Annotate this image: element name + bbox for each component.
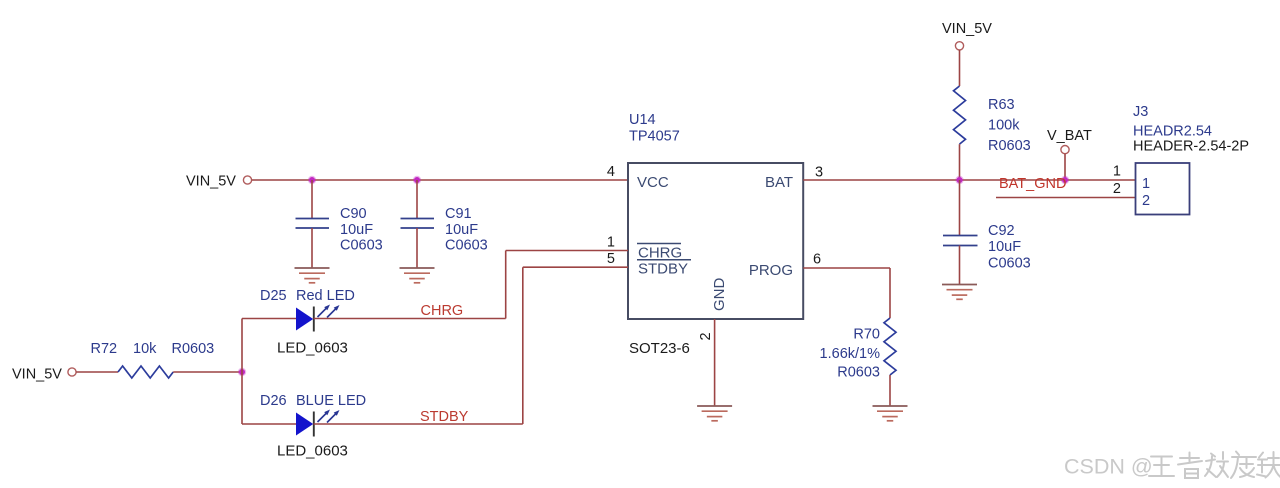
- svg-text:VCC: VCC: [637, 174, 669, 191]
- label D25: [260, 288, 355, 304]
- svg-text:1: 1: [1113, 164, 1121, 180]
- wire D25 anode: [242, 318, 296, 320]
- svg-text:STDBY: STDBY: [420, 409, 469, 425]
- svg-text:LED_0603: LED_0603: [277, 443, 348, 460]
- capacitor C92: [943, 236, 978, 246]
- wire C91 top stub: [416, 180, 418, 219]
- watermark CSDN: [1064, 455, 1153, 479]
- svg-text:10uF: 10uF: [445, 222, 478, 238]
- svg-text:2: 2: [1113, 181, 1121, 197]
- svg-text:100k: 100k: [988, 118, 1020, 134]
- wire J3 pin 2: [996, 197, 1136, 199]
- ground C91: [400, 268, 435, 283]
- node junction C91: [413, 176, 421, 184]
- svg-text:2: 2: [1142, 193, 1150, 209]
- svg-text:LED_0603: LED_0603: [277, 340, 348, 357]
- svg-text:V_BAT: V_BAT: [1047, 128, 1092, 144]
- terminal V_BAT: [1061, 146, 1069, 154]
- wire U14 pin 3 to J3: [803, 179, 1135, 181]
- wire CHRG vertical: [505, 251, 507, 319]
- node junction C90: [308, 176, 316, 184]
- svg-text:R0603: R0603: [837, 365, 880, 381]
- terminal VIN_5V top-right: [955, 42, 963, 50]
- svg-text:TP4057: TP4057: [629, 129, 680, 145]
- wire U14 pin 6: [803, 267, 890, 269]
- label C92: [988, 223, 1031, 272]
- svg-text:C0603: C0603: [988, 256, 1031, 272]
- svg-text:2: 2: [698, 332, 714, 340]
- wire U14 pin 1: [506, 250, 628, 252]
- svg-text:VIN_5V: VIN_5V: [942, 21, 992, 37]
- watermark chinese glyphs: [1149, 452, 1280, 479]
- wire LED split vertical: [241, 319, 243, 425]
- pin name STDBY (active low): [637, 260, 691, 278]
- svg-text:U14: U14: [629, 112, 656, 128]
- svg-text:CHRG: CHRG: [421, 303, 464, 319]
- svg-text:R72: R72: [91, 341, 118, 357]
- pin name CHRG (active low): [637, 244, 682, 262]
- svg-text:CHRG: CHRG: [638, 245, 682, 262]
- ground C92: [942, 285, 977, 300]
- connector J3 labels: [1133, 104, 1249, 155]
- capacitor C91: [401, 219, 435, 229]
- resistor R70: [884, 318, 896, 375]
- svg-text:STDBY: STDBY: [638, 261, 688, 278]
- node junction V_BAT: [1061, 176, 1069, 184]
- svg-text:6: 6: [813, 252, 821, 268]
- svg-text:VIN_5V: VIN_5V: [12, 367, 62, 383]
- wire U14 pin 5: [523, 266, 628, 268]
- label R63: [988, 97, 1031, 154]
- ground C90: [295, 268, 330, 283]
- svg-text:C0603: C0603: [340, 238, 383, 254]
- wire terminal to R63: [959, 50, 961, 86]
- svg-text:BAT_GND: BAT_GND: [999, 176, 1066, 192]
- svg-text:D25: D25: [260, 288, 287, 304]
- svg-text:HEADR2.54: HEADR2.54: [1133, 124, 1212, 140]
- wire VIN_5V rail to U14 pin 4: [252, 179, 628, 181]
- op-amp U14 designator: [629, 112, 680, 145]
- svg-text:VIN_5V: VIN_5V: [186, 174, 236, 190]
- connector J3 body: [1136, 163, 1190, 215]
- terminal VIN_5V top-left: [243, 176, 251, 184]
- wire STDBY vertical: [522, 267, 524, 424]
- svg-text:D26: D26: [260, 393, 287, 409]
- LED D26: [296, 410, 340, 437]
- label R70: [820, 327, 881, 381]
- svg-text:5: 5: [607, 251, 615, 267]
- label C91: [445, 206, 488, 254]
- wire D25 cathode to CHRG: [314, 318, 506, 320]
- ground R70: [873, 406, 908, 421]
- svg-text:1.66k/1%: 1.66k/1%: [820, 346, 881, 362]
- svg-text:R0603: R0603: [172, 341, 215, 357]
- wire U14 pin 2 to ground: [714, 319, 716, 406]
- svg-text:C91: C91: [445, 206, 472, 222]
- LED D25: [296, 305, 340, 332]
- svg-text:1: 1: [1142, 176, 1150, 192]
- wire C92 to ground: [959, 246, 961, 285]
- terminal VIN_5V bottom-left: [68, 368, 76, 376]
- label R72: [91, 341, 215, 357]
- wire R70 to ground: [889, 375, 891, 406]
- wire D26 anode: [242, 423, 296, 425]
- svg-text:Red LED: Red LED: [296, 288, 355, 304]
- wire V_BAT stub: [1064, 154, 1066, 180]
- ground U14 pin 2: [697, 406, 732, 421]
- svg-text:R70: R70: [853, 327, 880, 343]
- IC U14 body: [628, 163, 803, 319]
- resistor R63: [954, 86, 966, 144]
- svg-text:10k: 10k: [133, 341, 157, 357]
- svg-text:10uF: 10uF: [988, 239, 1021, 255]
- label C90: [340, 206, 383, 254]
- svg-text:SOT23-6: SOT23-6: [629, 340, 690, 357]
- svg-text:J3: J3: [1133, 104, 1148, 120]
- svg-text:R0603: R0603: [988, 138, 1031, 154]
- svg-text:CSDN @: CSDN @: [1064, 455, 1153, 479]
- svg-text:HEADER-2.54-2P: HEADER-2.54-2P: [1133, 139, 1249, 155]
- wire C91 bottom stub: [416, 228, 418, 268]
- svg-text:PROG: PROG: [749, 262, 793, 279]
- node junction R63/C92: [955, 176, 963, 184]
- wire D26 cathode to STDBY: [314, 423, 523, 425]
- capacitor C90: [296, 219, 330, 229]
- wire R72 to junction: [173, 371, 242, 373]
- wire C90 bottom stub: [311, 228, 313, 268]
- svg-text:10uF: 10uF: [340, 222, 373, 238]
- svg-text:R63: R63: [988, 97, 1015, 113]
- svg-text:BLUE LED: BLUE LED: [296, 393, 366, 409]
- svg-text:4: 4: [607, 164, 615, 180]
- svg-text:BAT: BAT: [765, 174, 793, 191]
- label D26: [260, 393, 366, 409]
- wire terminal to R72: [76, 371, 118, 373]
- wire pin 6 down to R70: [889, 268, 891, 318]
- svg-text:1: 1: [607, 234, 615, 250]
- wire R63 to junction: [959, 144, 961, 180]
- svg-text:C90: C90: [340, 206, 367, 222]
- wire C90 top stub: [311, 180, 313, 219]
- node junction LED split: [238, 368, 246, 376]
- svg-text:GND: GND: [711, 278, 728, 312]
- svg-text:C0603: C0603: [445, 238, 488, 254]
- svg-text:3: 3: [815, 165, 823, 181]
- svg-text:C92: C92: [988, 223, 1015, 239]
- wire junction down to C92: [959, 180, 961, 236]
- resistor R72: [118, 366, 173, 378]
